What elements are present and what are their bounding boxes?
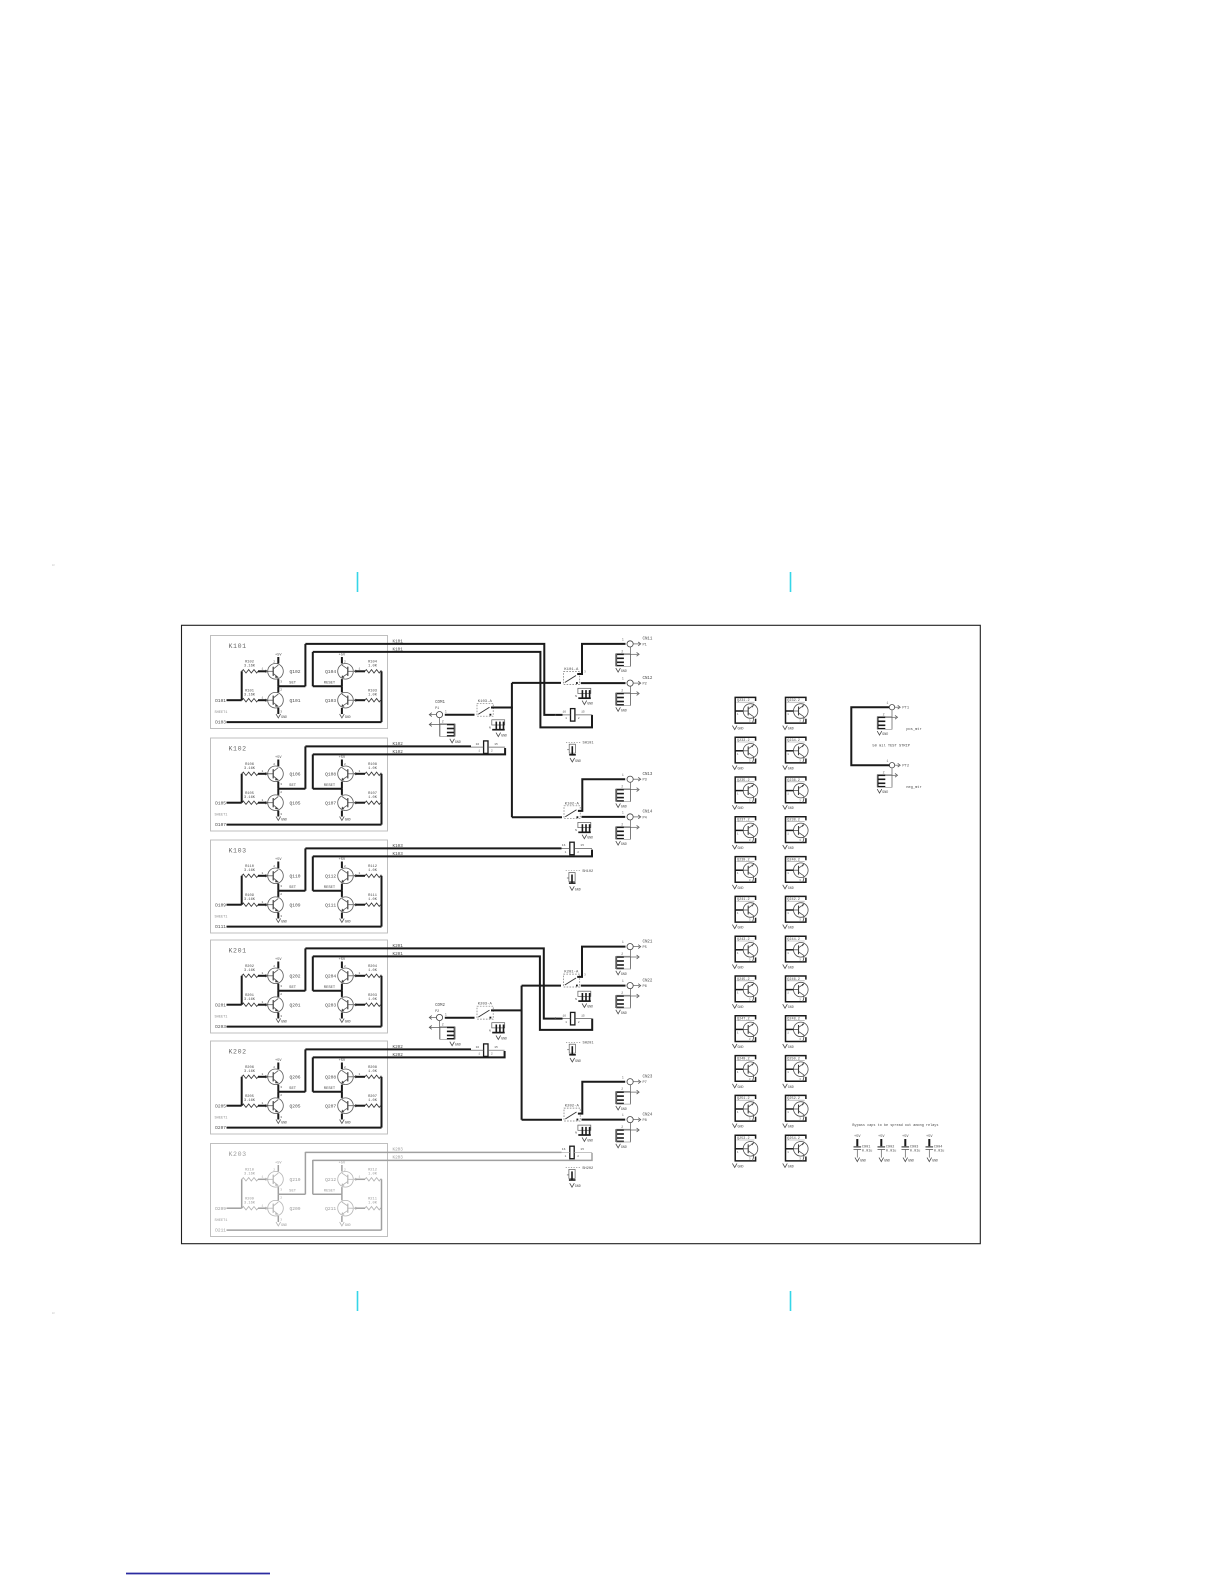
- net K201 RESET bus wire: [313, 956, 592, 1030]
- svg-text:Q249.2: Q249.2: [737, 1057, 750, 1061]
- svg-text:GND: GND: [738, 1125, 744, 1129]
- svg-text:GND: GND: [788, 727, 794, 731]
- spare transistor Q250.2: [786, 1056, 806, 1082]
- svg-text:GND: GND: [621, 1011, 627, 1015]
- svg-text:2: 2: [621, 1087, 623, 1091]
- svg-text:K103: K103: [229, 847, 247, 854]
- ground at JP5: [496, 733, 501, 737]
- spare transistor Q244.2: [786, 936, 806, 962]
- relay driver block K202: [211, 1041, 388, 1134]
- svg-text:GND: GND: [501, 734, 507, 738]
- svg-text:16: 16: [562, 844, 566, 847]
- svg-text:Q254.2: Q254.2: [787, 1137, 800, 1141]
- svg-text:15: 15: [581, 711, 585, 714]
- svg-text:2: 2: [621, 1125, 623, 1129]
- svg-text:GND: GND: [621, 669, 627, 673]
- svg-text:2: 2: [280, 1094, 282, 1097]
- svg-text:Q245.2: Q245.2: [737, 978, 750, 982]
- svg-text:1: 1: [737, 1071, 739, 1074]
- svg-text:GND: GND: [738, 1164, 744, 1168]
- wire SET to net K201: [304, 948, 306, 990]
- header CN21 pins: [615, 956, 617, 969]
- svg-text:1: 1: [787, 832, 789, 835]
- svg-text:Q242.2: Q242.2: [787, 898, 800, 902]
- discharge network SH201: [566, 1041, 582, 1043]
- svg-text:1.0K: 1.0K: [368, 998, 378, 1002]
- svg-text:+5V: +5V: [878, 1135, 885, 1139]
- svg-text:GND: GND: [345, 920, 351, 924]
- svg-text:GND: GND: [882, 790, 888, 794]
- relay coil K101: [571, 709, 575, 722]
- svg-text:1: 1: [359, 1176, 361, 1179]
- svg-text:SET: SET: [289, 784, 297, 788]
- svg-text:3: 3: [799, 720, 801, 723]
- svg-text:CN23: CN23: [643, 1076, 653, 1080]
- svg-text:GND: GND: [788, 1125, 794, 1129]
- svg-text:0.01u: 0.01u: [910, 1149, 921, 1153]
- svg-text:1: 1: [622, 1113, 624, 1117]
- svg-text:3: 3: [749, 760, 751, 763]
- ground at COM1: [450, 739, 455, 743]
- wire left input join: [241, 976, 243, 1005]
- ground below Q251.2: [732, 1124, 737, 1128]
- svg-text:RESET: RESET: [324, 986, 336, 990]
- spare transistor Q238.2: [786, 817, 806, 843]
- svg-text:1: 1: [622, 811, 624, 815]
- svg-text:P1: P1: [435, 707, 439, 711]
- header CN23 pins: [615, 1091, 617, 1104]
- wire left input join: [241, 774, 243, 803]
- svg-text:COM2: COM2: [435, 1004, 445, 1008]
- svg-text:D211: D211: [215, 1228, 226, 1234]
- spare transistor Q237.2: [735, 817, 755, 843]
- svg-text:1: 1: [887, 759, 889, 763]
- spare transistor Q253.2: [735, 1135, 755, 1161]
- svg-text:CN11: CN11: [643, 638, 653, 642]
- svg-text:D203: D203: [215, 1024, 226, 1030]
- svg-text:1: 1: [622, 979, 624, 983]
- svg-text:3.16K: 3.16K: [244, 1099, 256, 1103]
- wire right input join: [381, 875, 382, 877]
- svg-text:SET: SET: [289, 886, 297, 890]
- header CN24 pins: [615, 1129, 617, 1142]
- svg-text:Q247.2: Q247.2: [737, 1018, 750, 1022]
- svg-text:Q235.2: Q235.2: [737, 779, 750, 783]
- svg-text:P3: P3: [643, 779, 647, 783]
- ground below Q211: [340, 1222, 345, 1226]
- header CN12 pins: [615, 693, 617, 706]
- svg-text:1.0K: 1.0K: [368, 1173, 378, 1177]
- svg-text:Q239.2: Q239.2: [737, 858, 750, 862]
- header CN22 pins: [615, 995, 617, 1008]
- wire RESET to net K101: [312, 652, 314, 686]
- svg-text:2: 2: [273, 1168, 275, 1171]
- svg-text:1: 1: [262, 696, 264, 699]
- connector CN21: [627, 944, 633, 950]
- svg-text:Q110: Q110: [290, 874, 301, 880]
- svg-text:Bypass caps to be spread out a: Bypass caps to be spread out among relay…: [852, 1123, 938, 1128]
- svg-text:1: 1: [262, 872, 264, 875]
- footer blue rule: [126, 1573, 270, 1575]
- svg-text:3: 3: [749, 959, 751, 962]
- input D109: [227, 904, 242, 906]
- discharge network SH202: [566, 1167, 582, 1169]
- svg-text:Q252.2: Q252.2: [787, 1097, 800, 1101]
- svg-text:1: 1: [622, 940, 624, 944]
- spare transistor Q254.2: [786, 1135, 806, 1161]
- svg-text:RESET: RESET: [324, 1087, 336, 1091]
- input D203: [227, 1026, 382, 1028]
- svg-text:2: 2: [883, 770, 885, 774]
- svg-text:CN12: CN12: [643, 677, 653, 681]
- svg-text:Q209: Q209: [290, 1206, 301, 1212]
- svg-text:Q101: Q101: [290, 698, 301, 704]
- header CN13 pins: [615, 789, 617, 802]
- transistor Q210: [268, 1172, 284, 1188]
- svg-text:4: 4: [554, 1017, 556, 1020]
- svg-text:D209: D209: [215, 1206, 226, 1212]
- svg-text:3: 3: [280, 885, 282, 888]
- svg-text:GND: GND: [621, 708, 627, 712]
- svg-text:GND: GND: [345, 1020, 351, 1024]
- wire to K201-A common: [522, 985, 561, 987]
- transistor Q110: [268, 868, 284, 884]
- svg-text:GND: GND: [621, 1107, 627, 1111]
- svg-text:GND: GND: [738, 766, 744, 770]
- ground below Q105: [276, 817, 281, 821]
- svg-text:K202: K202: [393, 1053, 404, 1058]
- svg-text:Q106: Q106: [290, 772, 301, 778]
- svg-text:GND: GND: [621, 804, 627, 808]
- ground at COM2: [450, 1042, 455, 1046]
- svg-text:GND: GND: [788, 1085, 794, 1089]
- ground below Q252.2: [783, 1124, 788, 1128]
- ground at CN22: [616, 1010, 621, 1014]
- svg-text:3: 3: [280, 1086, 282, 1089]
- ground below Q209: [276, 1222, 281, 1226]
- svg-text:1: 1: [262, 1204, 264, 1207]
- ground at JP4: [582, 1137, 587, 1141]
- wire SET node: [278, 685, 305, 687]
- transistor Q211: [338, 1200, 354, 1216]
- svg-text:Q248.2: Q248.2: [787, 1018, 800, 1022]
- spare transistor Q240.2: [786, 857, 806, 883]
- svg-text:N: N: [489, 1029, 491, 1032]
- ground below Q234.2: [783, 765, 788, 769]
- svg-text:3: 3: [799, 1118, 801, 1121]
- svg-text:2: 2: [280, 791, 282, 794]
- input D209: [227, 1207, 242, 1209]
- wire RESET node: [313, 1091, 342, 1093]
- header CN11 pins: [615, 654, 617, 667]
- svg-text:2: 2: [621, 952, 623, 956]
- svg-text:SET: SET: [289, 1087, 297, 1091]
- svg-text:1: 1: [262, 770, 264, 773]
- svg-text:GND: GND: [788, 965, 794, 969]
- svg-text:1: 1: [737, 1111, 739, 1114]
- svg-text:Q205: Q205: [290, 1104, 301, 1110]
- discharge network SH101: [566, 741, 582, 743]
- jumper JP1 below K101-A: [578, 688, 591, 693]
- svg-text:GND: GND: [281, 715, 287, 719]
- svg-text:PT1: PT1: [902, 706, 909, 710]
- relay driver block K101: [211, 636, 388, 729]
- svg-text:CN21: CN21: [643, 940, 653, 944]
- svg-text:1.0K: 1.0K: [368, 767, 378, 771]
- svg-text:D103: D103: [215, 720, 226, 726]
- connector CN11: [627, 641, 633, 647]
- svg-text:GND: GND: [932, 1159, 938, 1163]
- svg-text:D107: D107: [215, 822, 226, 828]
- svg-text:GND: GND: [788, 766, 794, 770]
- svg-text:Q201: Q201: [290, 1003, 301, 1009]
- svg-text:2: 2: [621, 689, 623, 693]
- svg-text:3: 3: [584, 974, 586, 977]
- ground below Q247.2: [732, 1044, 737, 1048]
- wire left input join: [241, 876, 243, 905]
- svg-text:1: 1: [622, 773, 624, 777]
- net K103 SET bus wire: [305, 847, 561, 849]
- svg-text:3: 3: [799, 879, 801, 882]
- svg-text:Q103: Q103: [325, 698, 336, 704]
- input D101: [227, 699, 242, 701]
- ground at CN21: [616, 971, 621, 975]
- svg-text:3: 3: [280, 681, 282, 684]
- svg-text:P2: P2: [435, 1010, 439, 1014]
- jumper JP2 below K102-A: [578, 822, 591, 827]
- header COM2 pins: [454, 1027, 456, 1040]
- ground below Q236.2: [783, 805, 788, 809]
- svg-text:3: 3: [749, 799, 751, 802]
- ground at CN12: [616, 707, 621, 711]
- svg-text:SHEET1: SHEET1: [215, 711, 228, 715]
- svg-text:3.16K: 3.16K: [244, 1173, 256, 1177]
- svg-text:GND: GND: [455, 1043, 461, 1047]
- svg-text:3.16K: 3.16K: [244, 1201, 256, 1205]
- spare transistor Q232.2: [786, 697, 806, 723]
- svg-text:1: 1: [359, 872, 361, 875]
- jumper JP3 below K201-A: [578, 991, 591, 996]
- svg-text:2: 2: [280, 893, 282, 896]
- ground at CN11: [616, 668, 621, 672]
- wire RESET to net K201: [312, 956, 314, 990]
- svg-text:K102: K102: [393, 750, 404, 755]
- relay driver block K201: [211, 940, 388, 1033]
- svg-text:1.0K: 1.0K: [368, 869, 378, 873]
- svg-text:Q109: Q109: [290, 903, 301, 909]
- transistor Q205: [268, 1098, 284, 1114]
- wire to K102-A common: [512, 816, 562, 818]
- svg-text:Q112: Q112: [325, 874, 336, 880]
- ground below Q111: [340, 919, 345, 923]
- svg-text:3: 3: [799, 1038, 801, 1041]
- svg-text:D109: D109: [215, 902, 226, 908]
- svg-text:GND: GND: [738, 926, 744, 930]
- svg-text:Q253.2: Q253.2: [737, 1137, 750, 1141]
- ground below Q237.2: [732, 845, 737, 849]
- svg-text:1: 1: [787, 992, 789, 995]
- transistor Q201: [268, 997, 284, 1013]
- ground at C903: [903, 1158, 908, 1162]
- wire RESET node: [313, 890, 342, 892]
- svg-text:GND: GND: [345, 1223, 351, 1227]
- wire left input join: [241, 1179, 243, 1208]
- svg-text:3: 3: [584, 671, 586, 674]
- svg-text:2: 2: [273, 660, 275, 663]
- svg-text:Q244.2: Q244.2: [787, 938, 800, 942]
- svg-text:3.16K: 3.16K: [244, 969, 256, 973]
- input D205: [227, 1105, 242, 1107]
- svg-text:P2: P2: [643, 683, 647, 687]
- svg-text:2: 2: [280, 993, 282, 996]
- transistor Q204: [338, 968, 354, 984]
- wire right input join: [381, 670, 382, 672]
- svg-text:RESET: RESET: [324, 682, 336, 686]
- svg-text:1: 1: [887, 701, 889, 705]
- svg-text:GND: GND: [575, 759, 581, 763]
- svg-text:2: 2: [273, 1066, 275, 1069]
- svg-text:1.0K: 1.0K: [368, 1201, 378, 1205]
- svg-text:Q237.2: Q237.2: [737, 819, 750, 823]
- header CN14 pins: [615, 827, 617, 840]
- svg-text:1: 1: [787, 793, 789, 796]
- net K201 SET bus wire: [305, 948, 562, 1018]
- svg-text:1: 1: [787, 1151, 789, 1154]
- net K101 SET bus wire: [305, 644, 562, 715]
- ground at JP3: [582, 1004, 587, 1008]
- transistor Q208: [338, 1069, 354, 1085]
- svg-text:1: 1: [787, 753, 789, 756]
- wire K101-A NO to CN12: [581, 682, 626, 684]
- svg-text:N: N: [489, 726, 491, 729]
- svg-text:CN13: CN13: [643, 773, 653, 777]
- svg-text:GND: GND: [575, 1184, 581, 1188]
- wire K203-A pin3 to select node: [491, 1009, 522, 1011]
- svg-text:P5: P5: [643, 946, 647, 950]
- ground below Q201: [276, 1019, 281, 1023]
- connector CN13: [627, 776, 633, 782]
- ground below Q243.2: [732, 964, 737, 968]
- ground at C901: [855, 1158, 860, 1162]
- svg-text:GND: GND: [738, 1045, 744, 1049]
- svg-text:Q243.2: Q243.2: [737, 938, 750, 942]
- svg-text:GND: GND: [788, 806, 794, 810]
- connector CN12: [627, 680, 633, 686]
- svg-text:Q232.2: Q232.2: [787, 699, 800, 703]
- svg-text:1: 1: [262, 1176, 264, 1179]
- svg-text:1.0K: 1.0K: [368, 693, 378, 697]
- net K203 SET bus wire: [305, 1151, 561, 1153]
- svg-text:CN14: CN14: [643, 811, 653, 815]
- relay driver block K203: [211, 1144, 388, 1237]
- svg-text:3.16K: 3.16K: [244, 898, 256, 902]
- transistor Q111: [338, 897, 354, 913]
- svg-text:1: 1: [737, 952, 739, 955]
- svg-text:K201: K201: [229, 947, 247, 954]
- svg-text:1.0K: 1.0K: [368, 796, 378, 800]
- svg-text:1: 1: [359, 972, 361, 975]
- svg-text:GND: GND: [575, 887, 581, 891]
- svg-text:GND: GND: [788, 926, 794, 930]
- transistor Q207: [338, 1098, 354, 1114]
- relay driver block K102: [211, 738, 388, 831]
- svg-text:+5V: +5V: [854, 1135, 861, 1139]
- svg-text:3: 3: [280, 813, 282, 816]
- svg-text:SH201: SH201: [583, 1042, 595, 1046]
- svg-text:3: 3: [280, 1015, 282, 1018]
- wire K201-A pin3 up to CN21: [577, 947, 625, 977]
- svg-text:K201: K201: [393, 944, 404, 949]
- svg-text:2: 2: [344, 965, 346, 968]
- svg-text:GND: GND: [788, 886, 794, 890]
- svg-text:SHEET1: SHEET1: [215, 1016, 228, 1020]
- ground below Q231.2: [732, 726, 737, 730]
- svg-text:16: 16: [562, 1148, 566, 1151]
- ground below Q254.2: [783, 1163, 788, 1167]
- svg-text:GND: GND: [738, 1005, 744, 1009]
- connector CN24: [627, 1117, 633, 1123]
- svg-text:2: 2: [273, 763, 275, 766]
- transistor Q202: [268, 968, 284, 984]
- svg-text:CN24: CN24: [643, 1113, 653, 1117]
- svg-text:Q104: Q104: [325, 669, 336, 675]
- svg-text:Q211: Q211: [325, 1206, 336, 1212]
- ground below Q233.2: [732, 765, 737, 769]
- svg-text:K103: K103: [393, 844, 404, 849]
- wire K102-A pin3 up to CN13: [578, 779, 625, 811]
- svg-text:1: 1: [787, 952, 789, 955]
- relay driver block K103: [211, 840, 388, 933]
- svg-text:Q251.2: Q251.2: [737, 1097, 750, 1101]
- svg-text:K202: K202: [393, 1045, 404, 1050]
- net K203 RESET bus wire: [313, 1153, 592, 1161]
- svg-text:1: 1: [622, 677, 624, 681]
- svg-text:GND: GND: [621, 972, 627, 976]
- svg-text:1: 1: [787, 1071, 789, 1074]
- svg-text:3: 3: [749, 879, 751, 882]
- spare transistor Q234.2: [786, 737, 806, 763]
- ground below Q207: [340, 1120, 345, 1124]
- spare transistor Q247.2: [735, 1016, 755, 1042]
- svg-text:1: 1: [737, 832, 739, 835]
- svg-text:GND: GND: [281, 818, 287, 822]
- svg-text:D207: D207: [215, 1125, 226, 1131]
- svg-text:1.0K: 1.0K: [368, 1099, 378, 1103]
- transistor Q209: [268, 1200, 284, 1216]
- svg-text:1.0K: 1.0K: [368, 898, 378, 902]
- svg-text:+5V: +5V: [926, 1135, 933, 1139]
- svg-text:CN22: CN22: [643, 979, 653, 983]
- svg-text:3.16K: 3.16K: [244, 1070, 256, 1074]
- wire SET to net K101: [304, 644, 306, 686]
- spare transistor Q252.2: [786, 1095, 806, 1121]
- svg-text:1: 1: [737, 992, 739, 995]
- header COM1 pins: [454, 724, 456, 737]
- spare transistor Q249.2: [735, 1056, 755, 1082]
- svg-text:D205: D205: [215, 1103, 226, 1109]
- wire RESET node: [313, 788, 342, 790]
- svg-text:1: 1: [737, 1151, 739, 1154]
- ground at JP1: [582, 701, 587, 705]
- jumper JP5 below K103-A: [492, 720, 505, 725]
- svg-text:Q105: Q105: [290, 801, 301, 807]
- svg-text:15: 15: [494, 1046, 498, 1049]
- svg-text:3: 3: [280, 711, 282, 714]
- svg-text:0.01u: 0.01u: [886, 1149, 897, 1153]
- relay coil K203: [570, 1146, 574, 1159]
- header at PT2: [877, 775, 879, 788]
- svg-text:Q236.2: Q236.2: [787, 779, 800, 783]
